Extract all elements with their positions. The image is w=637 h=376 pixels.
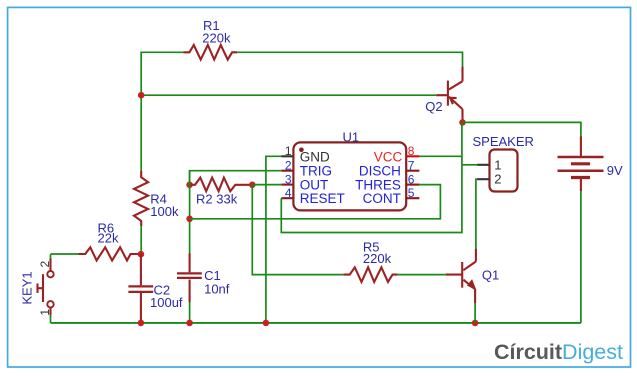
svg-text:9V: 9V (607, 163, 623, 178)
transistor Q1 (NPN) (446, 249, 476, 303)
wire TRIG pin2 (190, 171, 282, 185)
capacitor C2 (128, 254, 153, 323)
svg-text:100uf: 100uf (150, 295, 183, 310)
wire Q2 node to battery top (463, 122, 581, 137)
pin 7 stub (DISCH) (406, 170, 419, 172)
junction dot Q1 emitter rail (472, 320, 479, 327)
svg-text:CONT: CONT (363, 191, 401, 206)
svg-text:VCC: VCC (374, 149, 403, 164)
speaker pin 1 stub (477, 164, 489, 166)
svg-text:22k: 22k (98, 231, 119, 246)
pin 1 stub (GND) (281, 155, 293, 157)
svg-text:2: 2 (494, 172, 501, 187)
wire speaker pin1 to Q2 node vertical (462, 164, 477, 166)
svg-text:R2 33k: R2 33k (196, 191, 238, 206)
svg-text:6: 6 (408, 173, 415, 187)
svg-text:220k: 220k (363, 251, 392, 266)
op-amp U1 (555 timer body) (293, 142, 406, 210)
wire KEY1 top corner (50, 254, 52, 259)
pin 5 stub (CONT) (406, 197, 419, 199)
svg-text:RESET: RESET (300, 191, 345, 206)
junction dot R2 right (249, 182, 256, 189)
resistor R4 (134, 171, 148, 226)
pin 8 stub (VCC) (406, 155, 419, 157)
pin 4 stub (RESET) (281, 197, 293, 199)
svg-text:8: 8 (408, 144, 415, 158)
svg-text:U1: U1 (343, 130, 360, 145)
wire RESET pin4 routing (281, 122, 462, 232)
transistor Q2 (PNP) (436, 67, 462, 123)
wire R5 right to Q1 base (398, 274, 446, 276)
wire speaker pin2 down to Q1 collector (476, 179, 477, 249)
svg-text:TRIG: TRIG (300, 164, 332, 179)
pin 1 marker dot (299, 148, 304, 153)
resistor R1 (183, 45, 237, 60)
wire top rail right segment to Q2 collector (237, 52, 462, 67)
wire R6 left lead green (51, 253, 80, 255)
junction dot THRES node (186, 216, 193, 223)
pin 6 stub (THRES) (406, 184, 419, 186)
pin 2 stub (TRIG) (281, 170, 293, 172)
svg-text:100k: 100k (150, 204, 179, 219)
junction dot R6/R4/C2 (138, 251, 145, 258)
wire mid rail to Q2 base (141, 94, 436, 96)
svg-text:5: 5 (408, 186, 415, 200)
svg-text:4: 4 (285, 186, 292, 200)
wire Q1 emitter to rail (474, 303, 476, 323)
wire THRES pin6 routing (190, 185, 441, 219)
svg-text:DISCH: DISCH (359, 164, 401, 179)
resistor R5 (343, 267, 397, 282)
svg-text:Q2: Q2 (425, 99, 442, 114)
capacitor C1 (177, 253, 202, 302)
wire OUT node down to R5 (252, 185, 343, 275)
svg-text:GND: GND (300, 149, 330, 164)
speaker pin 2 stub (477, 178, 489, 180)
junction dot GND wire rail (263, 320, 270, 327)
svg-text:1: 1 (285, 144, 292, 158)
wire battery bottom to bottom rail (580, 191, 582, 323)
junction dot C1 bottom rail (186, 320, 193, 327)
svg-text:CírcuitDigest: CírcuitDigest (494, 340, 623, 364)
wire R4 bottom to junction (140, 226, 142, 254)
wire C1/THRES vertical (189, 171, 191, 256)
svg-text:1: 1 (494, 157, 501, 172)
Q1 emitter arrow (467, 279, 477, 290)
wire KEY1 bottom to rail (50, 315, 52, 323)
switch KEY1 (38, 258, 54, 315)
svg-text:KEY1: KEY1 (20, 271, 35, 304)
svg-text:SPEAKER: SPEAKER (473, 134, 534, 149)
svg-text:3: 3 (285, 173, 292, 187)
svg-text:2: 2 (38, 260, 52, 267)
svg-text:Q1: Q1 (482, 268, 499, 283)
resistor R6 (78, 247, 138, 260)
resistor R2 (190, 178, 253, 192)
pin 3 stub (OUT) (281, 184, 293, 186)
battery BT1 9V (558, 136, 604, 191)
junction dot R2 left (186, 182, 193, 189)
wire bottom rail (51, 322, 581, 324)
wire top rail left segment (141, 52, 183, 171)
junction dot left vertical / mid rail (138, 92, 145, 99)
svg-text:10nf: 10nf (204, 281, 230, 296)
svg-text:7: 7 (408, 159, 415, 173)
wire VCC pin8 to Q2 node vertical (419, 155, 462, 157)
speaker LS1 (490, 150, 518, 192)
wire OUT pin3 to R2 (252, 184, 281, 186)
wire C1 bottom to rail (189, 302, 191, 323)
junction dot C2 bottom rail (138, 320, 145, 327)
svg-text:220k: 220k (202, 31, 231, 46)
wire GND pin1 to bottom rail (266, 156, 281, 323)
svg-text:2: 2 (285, 159, 292, 173)
junction dot Q2 emitter node (459, 119, 466, 126)
